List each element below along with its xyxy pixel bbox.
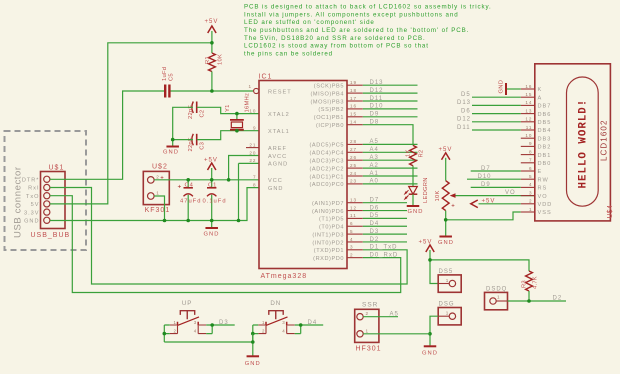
- wires PD nets D7-D2: [363, 198, 407, 243]
- svg-text:GND: GND: [438, 240, 454, 246]
- IC1 ATmega328 body: [259, 81, 347, 269]
- svg-text:18: 18: [350, 88, 357, 93]
- +5V supply symbol (middle): [208, 163, 216, 170]
- resistor R1 10K: [209, 53, 216, 72]
- wire/label D10 to LCD RW: [467, 178, 521, 180]
- pad DSG: [438, 308, 461, 325]
- svg-text:14: 14: [350, 120, 357, 125]
- svg-text:5: 5: [529, 174, 533, 179]
- IC1 left pin numbers: [249, 108, 256, 187]
- svg-text:RESET: RESET: [268, 89, 292, 95]
- svg-text:23: 23: [350, 179, 357, 184]
- svg-text:(ADC3)PC3: (ADC3)PC3: [310, 159, 344, 165]
- pad DS5: [438, 275, 461, 292]
- svg-text:4: 4: [350, 237, 354, 242]
- wire R2 to LED: [412, 166, 414, 187]
- svg-text:D3: D3: [370, 229, 380, 235]
- svg-text:DB0: DB0: [538, 161, 552, 167]
- resistor R2 1K: [410, 145, 417, 165]
- wire/label D9 to LCD RS: [471, 186, 521, 188]
- wire SSR pin2 A5 net: [363, 316, 398, 318]
- svg-text:VDD: VDD: [538, 202, 553, 208]
- svg-text:2: 2: [366, 311, 370, 316]
- svg-text:D2: D2: [370, 237, 380, 243]
- svg-text:D10: D10: [478, 174, 492, 180]
- svg-text:RW: RW: [538, 177, 549, 183]
- ground symbol (LED): [407, 205, 420, 207]
- svg-text:DS5: DS5: [439, 269, 454, 275]
- svg-text:10K: 10K: [435, 190, 441, 201]
- svg-text:KF301: KF301: [145, 207, 171, 214]
- svg-text:XTAL1: XTAL1: [268, 129, 290, 135]
- svg-text:LEDGRN: LEDGRN: [423, 177, 429, 203]
- svg-text:+5V: +5V: [419, 240, 433, 246]
- svg-text:RS: RS: [538, 186, 548, 192]
- svg-text:VO: VO: [505, 190, 516, 196]
- wire SSR pin1 to DSG ground node: [363, 333, 430, 335]
- svg-text:GND: GND: [245, 361, 261, 367]
- svg-text:DSG: DSG: [439, 301, 455, 307]
- trimmer 10K (contrast): [442, 181, 449, 211]
- svg-text:A4: A4: [370, 147, 379, 153]
- IC1 right pin stubs and numbers: [347, 80, 363, 258]
- svg-text:5V: 5V: [31, 202, 40, 208]
- svg-text:(RXD)PD0: (RXD)PD0: [313, 256, 344, 262]
- svg-text:C2: C2: [199, 110, 205, 118]
- svg-text:D4: D4: [308, 320, 318, 326]
- svg-text:C1: C1: [208, 182, 217, 188]
- svg-text:13: 13: [350, 198, 357, 203]
- svg-text:GND: GND: [408, 209, 424, 215]
- svg-text:15: 15: [525, 92, 532, 97]
- wire/label D7 to LCD E: [471, 170, 521, 172]
- wire pushbutton ground rail: [164, 334, 253, 356]
- svg-text:R2: R2: [419, 150, 425, 158]
- svg-text:3: 3: [194, 320, 197, 325]
- svg-text:21: 21: [249, 142, 256, 147]
- svg-text:D13: D13: [457, 100, 471, 106]
- ground symbol (DS18B20): [424, 345, 437, 347]
- svg-text:A5: A5: [390, 311, 399, 317]
- junction dots crystal: [171, 112, 239, 142]
- svg-text:DB4: DB4: [538, 128, 552, 134]
- svg-text:GND: GND: [268, 186, 283, 192]
- svg-text:(TXD)PD1: (TXD)PD1: [314, 248, 344, 254]
- wire/label D6 to LCD DB6: [472, 113, 521, 115]
- svg-text:(INT1)PD3: (INT1)PD3: [312, 232, 344, 238]
- svg-text:Y1: Y1: [225, 104, 231, 112]
- IC1 left pin names: [268, 89, 292, 192]
- svg-text:5: 5: [350, 229, 354, 234]
- svg-text:A3: A3: [370, 155, 379, 161]
- svg-text:D5: D5: [370, 213, 380, 219]
- svg-text:R1: R1: [205, 56, 211, 64]
- svg-text:(ADC4)PC4: (ADC4)PC4: [310, 151, 344, 157]
- svg-text:0.1uFd: 0.1uFd: [203, 199, 227, 205]
- svg-text:VSS: VSS: [538, 210, 552, 216]
- terminal U$2 KF301 body: [143, 171, 169, 204]
- svg-text:12: 12: [350, 205, 357, 210]
- svg-text:2: 2: [174, 328, 177, 333]
- svg-text:1: 1: [446, 311, 450, 316]
- wire USB 5V up to +5V node: [50, 43, 212, 204]
- pushbutton DN: [269, 311, 283, 320]
- USB connector dashed enclosure: [5, 131, 87, 250]
- svg-text:+5V: +5V: [482, 198, 496, 204]
- svg-text:GND: GND: [499, 80, 505, 94]
- svg-text:DB1: DB1: [538, 153, 552, 159]
- capacitor C3 22pF: [196, 134, 198, 146]
- wire C3 left: [173, 139, 193, 141]
- U$1 pin labels DTR* RxI TxO 5V 3.3V GND: [22, 178, 40, 225]
- svg-text:8: 8: [253, 182, 257, 187]
- svg-text:+5V: +5V: [205, 19, 219, 25]
- SSR pin 1: [357, 331, 363, 337]
- svg-text:D7: D7: [481, 166, 491, 172]
- wire R1 to reset net: [211, 72, 213, 92]
- svg-text:(AIN0)PD6: (AIN0)PD6: [312, 209, 344, 215]
- svg-text:16: 16: [525, 84, 532, 89]
- wire DSG to ground: [430, 316, 438, 346]
- svg-text:(MOSI)PB3: (MOSI)PB3: [310, 99, 344, 105]
- svg-text:12: 12: [525, 117, 532, 122]
- notes text block: [244, 4, 492, 58]
- svg-text:+: +: [178, 184, 183, 191]
- capacitor C4 47uFd: [187, 180, 189, 221]
- svg-text:27: 27: [350, 147, 357, 152]
- svg-text:47uFd: 47uFd: [180, 199, 201, 205]
- svg-text:D13: D13: [370, 80, 384, 86]
- svg-text:U$1: U$1: [49, 164, 65, 171]
- UP junction dots: [163, 323, 215, 335]
- svg-text:17: 17: [350, 96, 357, 101]
- svg-text:3: 3: [529, 190, 533, 195]
- svg-text:10K: 10K: [218, 54, 224, 65]
- svg-text:1: 1: [262, 320, 265, 325]
- svg-text:C4: C4: [185, 182, 194, 188]
- DN wires: [253, 325, 323, 342]
- svg-text:25: 25: [350, 163, 357, 168]
- wire LCD K to ground (rotated gnd symbol): [506, 88, 521, 90]
- svg-text:(T0)PD4: (T0)PD4: [319, 225, 344, 231]
- capacitor C2 22pF: [196, 102, 198, 114]
- svg-text:9: 9: [253, 126, 257, 131]
- pushbutton UP: [180, 311, 194, 320]
- svg-text:3: 3: [282, 320, 285, 325]
- AREF pin stub: [246, 147, 259, 149]
- svg-text:U$4: U$4: [607, 205, 614, 219]
- svg-text:1: 1: [174, 320, 177, 325]
- svg-text:D7: D7: [370, 198, 380, 204]
- svg-text:6: 6: [350, 221, 354, 226]
- svg-text:XTAL2: XTAL2: [268, 112, 290, 118]
- svg-text:19: 19: [350, 80, 357, 85]
- net labels D13-D8: [370, 80, 384, 126]
- svg-text:20: 20: [249, 150, 256, 155]
- junction dots reset net: [210, 41, 214, 93]
- svg-text:DB3: DB3: [538, 136, 552, 142]
- svg-text:DN: DN: [270, 300, 281, 307]
- svg-text:11: 11: [526, 125, 533, 130]
- svg-text:26: 26: [350, 155, 357, 160]
- svg-text:AVCC: AVCC: [268, 154, 287, 160]
- svg-text:DB6: DB6: [538, 112, 552, 118]
- +5V supply symbol (DS18B20): [426, 245, 434, 252]
- wire/label D5 to LCD A: [472, 96, 521, 98]
- wire pot bottom to VSS rail and ground: [446, 211, 521, 237]
- svg-text:DSDQ: DSDQ: [486, 286, 507, 292]
- svg-text:A: A: [538, 95, 543, 101]
- capacitor C1 0.1uFd: [211, 180, 213, 221]
- crystal Y1 16MHz: [236, 114, 238, 131]
- svg-text:3: 3: [350, 245, 354, 250]
- svg-text:The 5Vin, DS18B20 and SSR are: The 5Vin, DS18B20 and SSR are soldered t…: [244, 35, 426, 42]
- svg-text:RxI: RxI: [28, 186, 39, 192]
- svg-text:3.3V: 3.3V: [24, 210, 40, 216]
- wire/label D13 to LCD DB7: [472, 104, 521, 106]
- wire DTR* to reset capacitor C5: [50, 91, 165, 179]
- svg-text:(ADC5)PC5: (ADC5)PC5: [310, 143, 344, 149]
- svg-text:(AIN1)PD7: (AIN1)PD7: [312, 201, 344, 207]
- svg-text:The pushbuttons and LED are so: The pushbuttons and LED are soldered to …: [244, 27, 469, 34]
- junction dot pot ground: [444, 218, 448, 222]
- svg-text:11: 11: [350, 213, 357, 218]
- svg-text:7: 7: [529, 158, 533, 163]
- svg-text:(MISO)PB4: (MISO)PB4: [310, 91, 344, 97]
- wires PB nets D13-D9: [363, 85, 418, 117]
- IC1 RESET pin with bubble: [254, 88, 259, 93]
- svg-text:4.7K: 4.7K: [533, 276, 539, 289]
- svg-text:1: 1: [248, 84, 252, 89]
- wire TxO to D0_RxD (IC pin 2): [50, 196, 401, 293]
- svg-text:E: E: [538, 169, 543, 175]
- svg-text:C3: C3: [199, 142, 205, 150]
- svg-text:ATmega328: ATmega328: [261, 273, 308, 280]
- svg-text:LCD1602 is stood away from bot: LCD1602 is stood away from bottom of PCB…: [244, 43, 429, 50]
- svg-text:10: 10: [525, 133, 532, 138]
- U$2 pin 2 (+): [148, 177, 155, 184]
- ground symbol (decoupling): [211, 221, 213, 228]
- wire +5V to R3 and DS5: [430, 260, 529, 284]
- svg-text:+: +: [160, 176, 165, 182]
- svg-text:1uFd: 1uFd: [162, 67, 168, 81]
- U$2 pin 1: [148, 193, 155, 200]
- svg-text:D0_RxD: D0_RxD: [370, 252, 399, 258]
- wire AGND down to ground bus: [239, 163, 260, 220]
- +5V supply symbol (pot): [442, 153, 450, 160]
- svg-text:4: 4: [282, 328, 285, 333]
- DN junction dots: [251, 323, 303, 335]
- svg-text:DB5: DB5: [538, 120, 552, 126]
- svg-text:4: 4: [529, 182, 533, 187]
- svg-text:(INT0)PD2: (INT0)PD2: [312, 240, 344, 246]
- svg-text:28: 28: [350, 139, 357, 144]
- wire reset net to RESET pin: [169, 90, 253, 92]
- svg-text:+: +: [451, 204, 456, 210]
- DN pin numbers: [262, 320, 286, 333]
- svg-text:(ADC0)PC0: (ADC0)PC0: [310, 182, 344, 188]
- SSR pin 2: [357, 314, 363, 320]
- svg-text:D4: D4: [370, 221, 380, 227]
- LCD pin stubs numbers and names: [521, 84, 553, 216]
- svg-text:D2: D2: [553, 296, 563, 302]
- svg-text:(ICP)PB0: (ICP)PB0: [316, 123, 344, 129]
- ground symbol (pot): [439, 236, 452, 238]
- svg-text:13: 13: [525, 108, 532, 113]
- wire LED to ground: [412, 194, 414, 206]
- svg-text:+5V: +5V: [439, 147, 453, 153]
- svg-text:D1_TxD: D1_TxD: [370, 245, 398, 251]
- junction dots DS18B20: [428, 258, 531, 336]
- svg-text:D3: D3: [219, 320, 229, 326]
- svg-text:(SCK)PB5: (SCK)PB5: [314, 84, 344, 90]
- svg-text:AGND: AGND: [268, 162, 288, 168]
- wire +5V node to R1: [211, 43, 213, 53]
- svg-text:K: K: [538, 87, 543, 93]
- svg-text:4: 4: [194, 328, 197, 333]
- svg-text:1K: 1K: [406, 149, 412, 157]
- svg-text:A0: A0: [370, 179, 379, 185]
- +5V supply symbol (top): [208, 26, 216, 33]
- svg-text:HF301: HF301: [356, 346, 382, 353]
- svg-text:14: 14: [525, 100, 532, 105]
- ground symbol (crystal caps): [166, 146, 179, 148]
- wire AVCC to +5V bus: [229, 156, 259, 180]
- wire U$2 pin1 down to ground bus: [154, 196, 164, 221]
- svg-text:D11: D11: [457, 125, 471, 131]
- svg-text:U$2: U$2: [152, 164, 168, 171]
- svg-text:10: 10: [249, 108, 256, 113]
- svg-text:(T1)PD5: (T1)PD5: [319, 217, 344, 223]
- +5V supply (left-pointing) to LCD VDD: [479, 203, 521, 205]
- svg-text:LCD1602: LCD1602: [600, 119, 609, 161]
- svg-text:GND: GND: [24, 219, 39, 225]
- svg-text:2: 2: [262, 328, 265, 333]
- svg-text:DTR*: DTR*: [22, 178, 40, 184]
- svg-text:6: 6: [529, 166, 533, 171]
- svg-text:IC1: IC1: [259, 74, 273, 81]
- terminal SSR HF301 body: [355, 309, 379, 342]
- svg-text:22: 22: [249, 158, 256, 163]
- svg-text:A1: A1: [370, 171, 379, 177]
- net labels D1_TxD D0_RxD: [370, 245, 399, 259]
- ground symbol (pushbuttons): [247, 355, 259, 357]
- wire RxI to D1_TxD (IC pin 3): [50, 188, 407, 285]
- svg-text:D11: D11: [370, 96, 384, 102]
- wire USB GND to ground bus: [50, 188, 259, 221]
- svg-text:(SS)PB2: (SS)PB2: [318, 107, 344, 113]
- svg-text:D12: D12: [457, 117, 471, 123]
- svg-text:PCB is designed to attach to b: PCB is designed to attach to back of LCD…: [244, 4, 492, 11]
- svg-text:R3: R3: [522, 280, 528, 288]
- svg-text:9: 9: [529, 141, 533, 146]
- svg-text:GND: GND: [422, 351, 438, 357]
- wire/label D12 to LCD DB5: [472, 121, 521, 123]
- svg-text:GND: GND: [163, 150, 179, 156]
- svg-text:TxO: TxO: [26, 194, 40, 200]
- svg-text:AREF: AREF: [268, 146, 287, 152]
- svg-text:C5: C5: [169, 73, 175, 81]
- svg-text:GND: GND: [204, 232, 220, 238]
- svg-text:D6: D6: [370, 205, 380, 211]
- svg-text:1: 1: [497, 294, 501, 299]
- connector U$1 USB_BUB body: [41, 172, 66, 229]
- wire +5V bus U$2 to VCC: [154, 179, 259, 181]
- svg-text:LED are stuffed on 'component': LED are stuffed on 'component' side: [244, 19, 375, 26]
- U$1 pins (circles): [44, 176, 50, 223]
- svg-text:UP: UP: [182, 300, 193, 307]
- svg-text:D9: D9: [370, 112, 380, 118]
- svg-text:(ADC1)PC1: (ADC1)PC1: [310, 174, 344, 180]
- svg-text:D6: D6: [461, 108, 471, 114]
- svg-text:D9: D9: [481, 182, 491, 188]
- svg-text:D5: D5: [461, 92, 471, 98]
- resistor R3 4.7K: [526, 271, 533, 291]
- svg-text:2: 2: [350, 252, 354, 257]
- junction dots power bus: [163, 178, 241, 222]
- svg-text:DB2: DB2: [538, 145, 552, 151]
- LED1 LEDGRN: [409, 187, 418, 195]
- svg-text:USB_BUB: USB_BUB: [31, 232, 71, 239]
- svg-text:A2: A2: [370, 163, 379, 169]
- LCD screen outline: [567, 77, 599, 206]
- wire pot wiper VO to LCD pin 3: [456, 195, 535, 197]
- wire DSDQ to D2 net: [508, 291, 567, 301]
- svg-text:2: 2: [529, 199, 533, 204]
- wire C2 left to ground: [173, 107, 193, 146]
- wire D8 to R2: [363, 125, 413, 146]
- wire/label D11 to LCD DB4: [472, 129, 521, 131]
- svg-text:24: 24: [350, 171, 357, 176]
- svg-text:15: 15: [350, 112, 357, 117]
- UP wires: [164, 325, 234, 342]
- svg-text:D12: D12: [370, 88, 384, 94]
- junction dot rail: [251, 340, 255, 344]
- capacitor C5 1uFd (reset): [164, 85, 166, 98]
- svg-text:16: 16: [350, 104, 357, 109]
- svg-text:HELLO WORLD!: HELLO WORLD!: [578, 99, 590, 189]
- svg-text:DB7: DB7: [538, 104, 552, 110]
- wire C2 to XTAL2: [197, 107, 259, 113]
- svg-text:A5: A5: [370, 139, 379, 145]
- svg-text:8: 8: [529, 149, 533, 154]
- svg-text:VO: VO: [538, 194, 548, 200]
- svg-text:7: 7: [253, 175, 257, 180]
- svg-text:the pins can be soldered: the pins can be soldered: [244, 50, 333, 57]
- pad DSDQ: [485, 292, 508, 309]
- svg-text:SSR: SSR: [362, 302, 378, 309]
- wire C3 to XTAL1: [197, 131, 259, 140]
- svg-text:1: 1: [156, 191, 160, 196]
- svg-text:VCC: VCC: [268, 178, 283, 184]
- svg-text:(ADC2)PC2: (ADC2)PC2: [310, 166, 344, 172]
- svg-text:D10: D10: [370, 104, 384, 110]
- svg-text:+5V: +5V: [204, 157, 218, 163]
- svg-text:1: 1: [529, 207, 533, 212]
- LCD1602 U$4 body: [535, 64, 611, 221]
- svg-text:1: 1: [366, 328, 370, 333]
- svg-text:Install via jumpers. All compo: Install via jumpers. All components exce…: [244, 11, 459, 18]
- UP pin numbers: [174, 320, 198, 333]
- IC1 right pin names: [310, 84, 344, 262]
- wires PC nets A5-A0: [363, 139, 418, 185]
- svg-text:1: 1: [446, 278, 450, 283]
- svg-text:(OC1)PB1: (OC1)PB1: [314, 115, 344, 121]
